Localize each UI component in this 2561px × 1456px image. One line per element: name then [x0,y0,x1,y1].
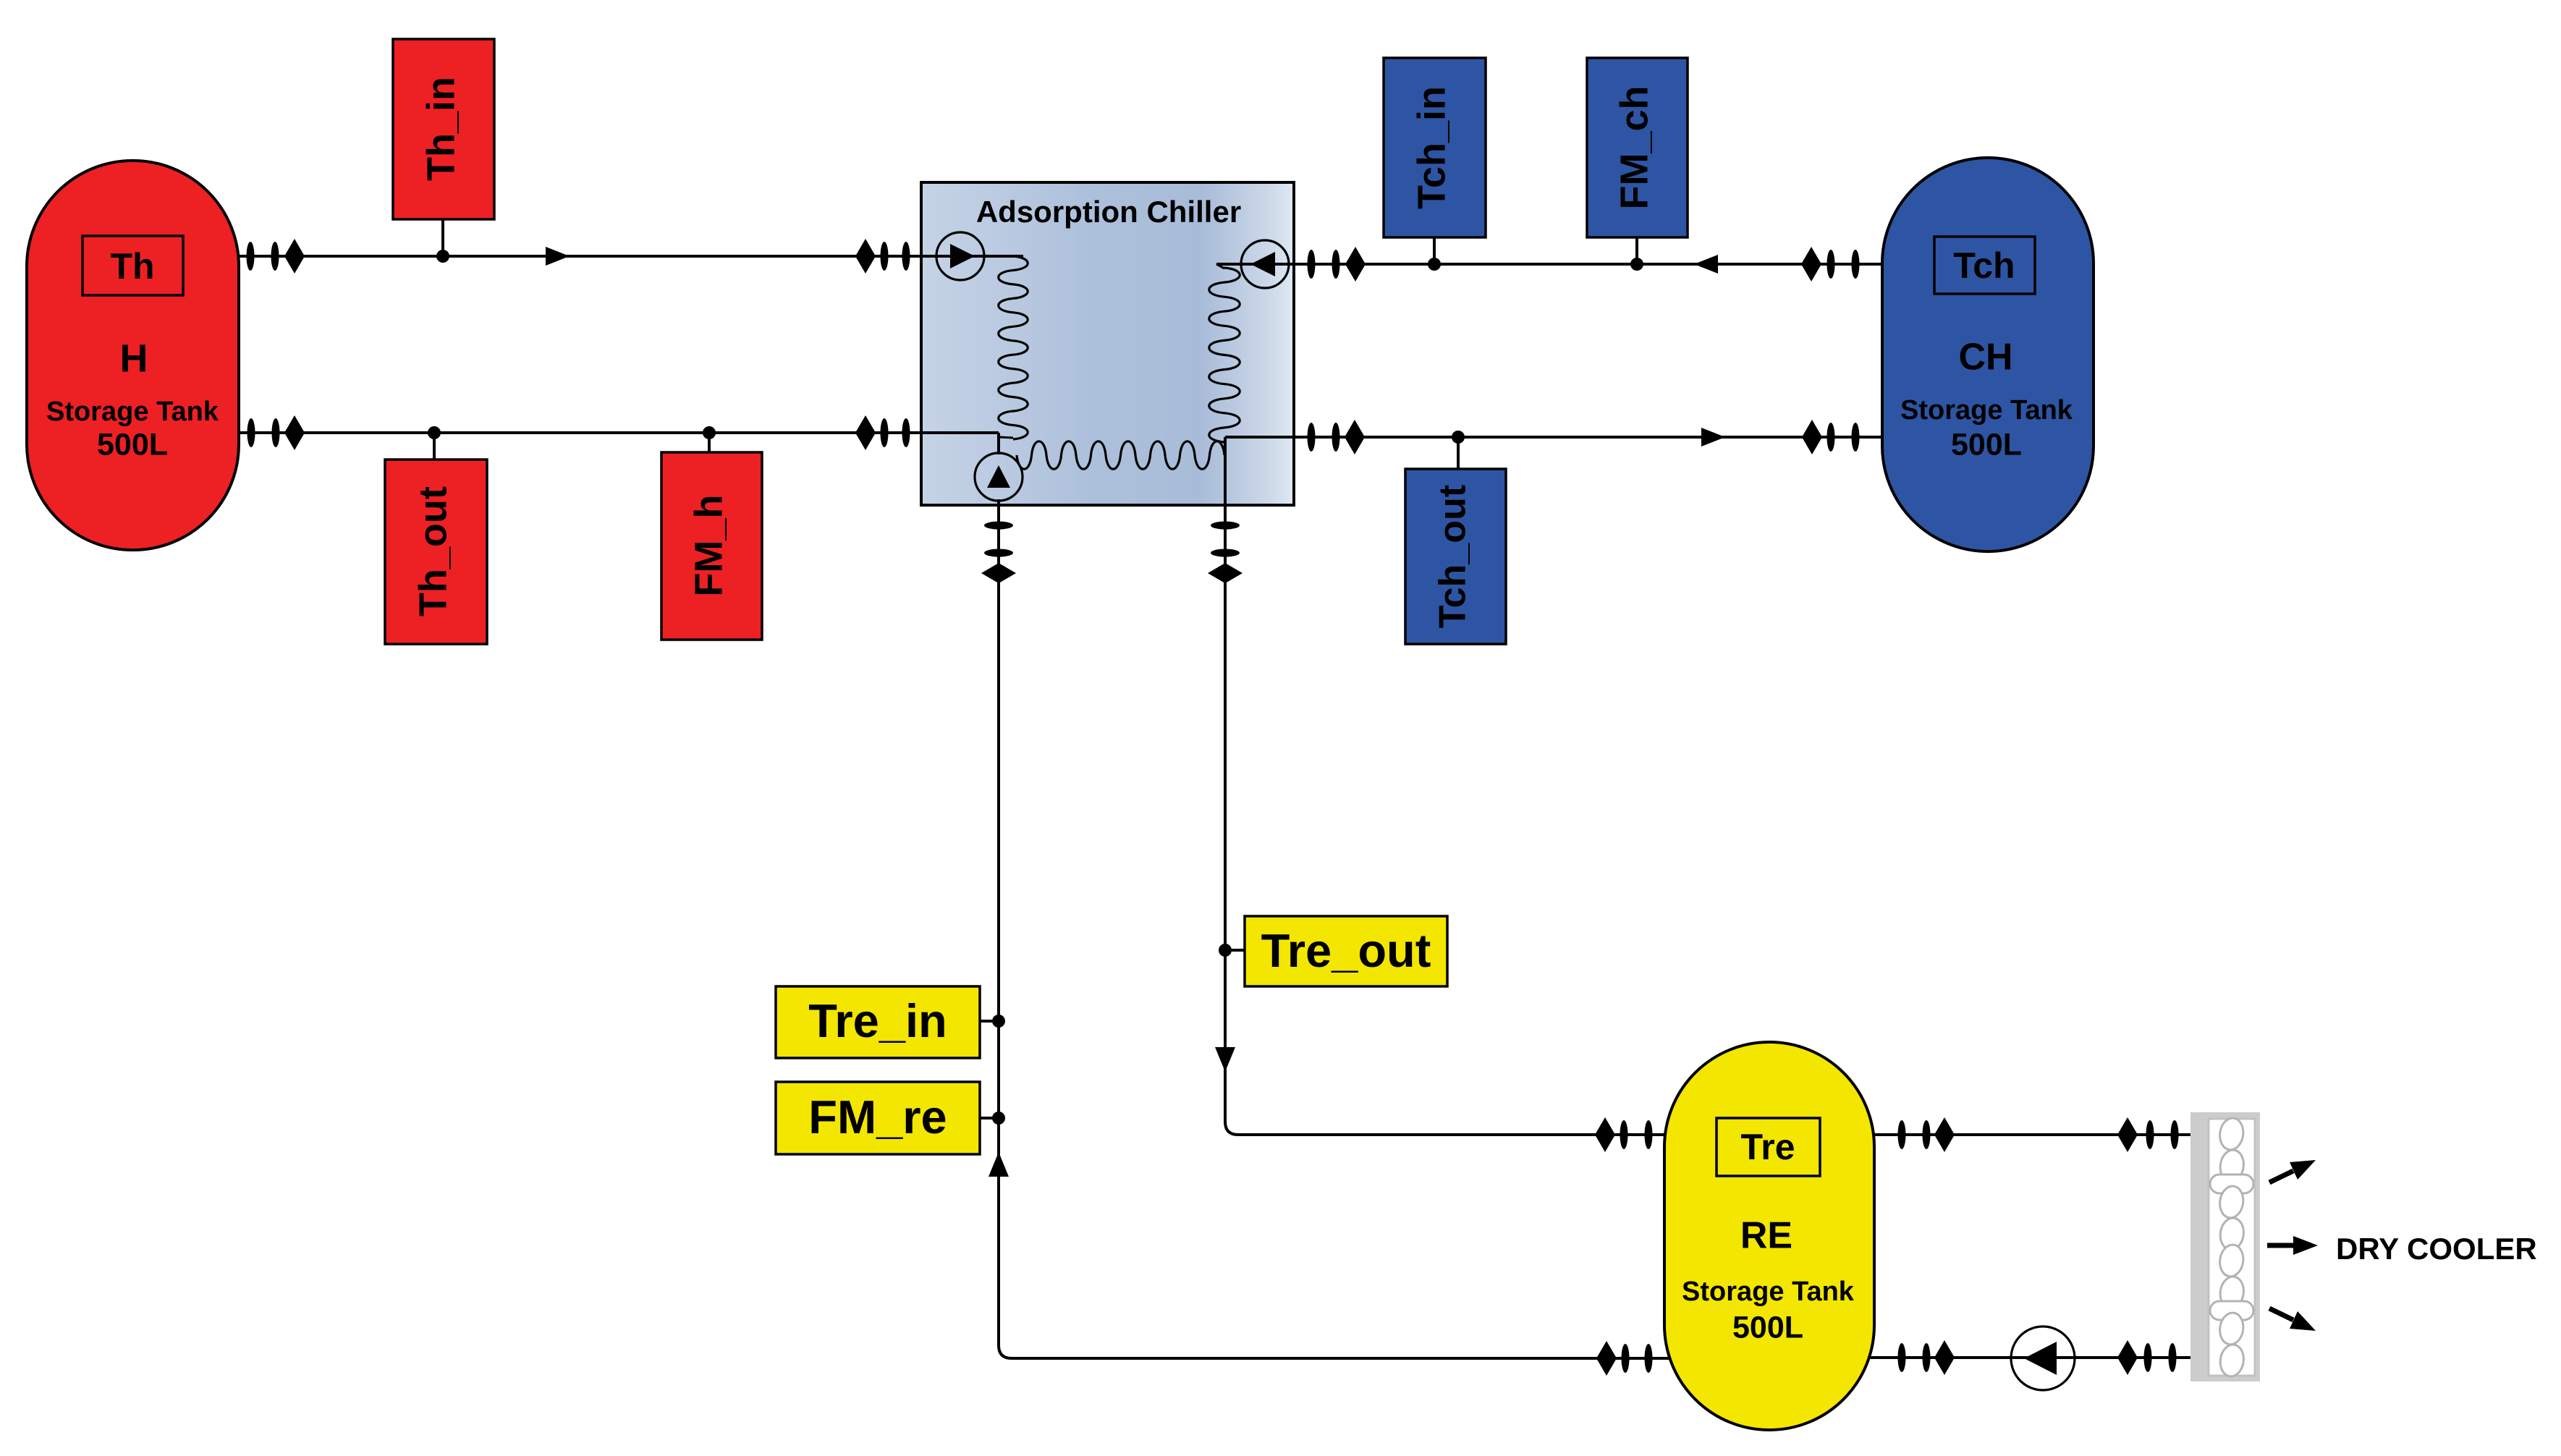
svg-text:FM_h: FM_h [687,495,730,597]
valve diamond [1802,420,1822,454]
valve tick [1852,250,1860,279]
node Tch_in junction [1428,258,1441,271]
flow arrow up [989,1152,1009,1177]
valve diamond [981,563,1016,583]
valve diamond [855,239,876,274]
valve diamond [1801,247,1821,282]
svg-text:500L: 500L [97,427,168,462]
wire corner down to recool pump [997,433,1000,454]
flow arrow right [1701,428,1725,446]
label Adsorption Chiller [976,195,1241,229]
dry cooler fan hub capsule [2210,1301,2253,1320]
valve diamond [2117,1340,2138,1375]
sensor connector FM_h [708,433,711,456]
sensor connector FM_ch [1635,237,1638,264]
node FM_ch junction [1630,258,1643,271]
valve diamond [1934,1117,1955,1152]
valve tick [1645,1120,1653,1149]
valve tick [2169,1343,2177,1372]
valve diamond [284,415,305,450]
air flow arrow up-right [2269,1160,2316,1182]
wire RE to dry cooler top [1853,1133,2193,1136]
heat exchanger coil evaporator [999,437,1224,469]
valve diamond [1345,420,1365,454]
svg-text:Th: Th [110,246,154,287]
valve tick [1308,423,1316,452]
dry cooler fan 1 [2218,1117,2245,1183]
svg-text:Tch_in: Tch_in [1410,86,1453,209]
valve tick [902,418,910,447]
sensor Tre_out [1245,916,1447,986]
sensor connector Tre_out [1225,949,1245,952]
sensor connector Th_in [441,219,444,256]
svg-text:Tre_in: Tre_in [808,994,947,1047]
pump P4 dry cooler circuit [2011,1326,2075,1390]
svg-text:Storage Tank: Storage Tank [1682,1277,1855,1307]
wire chilled return chiller to CH [1225,436,1903,439]
pump P2 chilled circuit [1241,240,1289,288]
svg-text:Th_in: Th_in [419,77,462,181]
valve tick [1852,423,1860,452]
flow arrow left [1694,255,1718,274]
svg-text:Tre: Tre [1740,1127,1795,1167]
valve tick [1645,1344,1653,1373]
valve tick [1923,1120,1931,1149]
svg-text:Th_out: Th_out [411,486,454,617]
valve tick [271,242,279,271]
sensor FM_ch [1587,58,1688,237]
valve tick [1211,522,1240,530]
node Tre_in junction [992,1015,1005,1028]
tank RE recooling storage [1664,1042,1874,1430]
dry cooler fan 4 [2218,1311,2245,1378]
valve tick [1827,423,1835,452]
valve diamond [1934,1340,1955,1375]
valve tick [984,522,1013,530]
sensor FM_h [661,452,762,640]
wire hot supply H to chiller [217,255,1023,258]
wire recool down from chiller [999,499,1012,1358]
valve tick [902,242,910,271]
valve diamond [855,415,876,450]
heat exchanger coil chilled side [1209,264,1240,442]
sensor connector Tch_in [1433,237,1436,264]
sensor connector FM_re [980,1117,999,1119]
sensor connector Tch_out [1457,437,1460,469]
valve tick [1308,250,1316,279]
node FM_h junction [703,426,716,439]
sensor Tch_out [1405,469,1506,644]
valve tick [1332,423,1340,452]
valve tick [247,242,255,271]
svg-text:Adsorption Chiller: Adsorption Chiller [976,195,1241,229]
svg-text:Tre_out: Tre_out [1261,924,1431,977]
pump P1 hot circuit [936,232,984,280]
sensor connector Tre_in [980,1020,999,1023]
valve tick [247,418,255,447]
valve tick [881,418,889,447]
label DRY COOLER [2336,1232,2537,1266]
svg-text:500L: 500L [1951,427,2022,462]
valve tick [1898,1343,1906,1372]
valve tick [1827,250,1835,279]
node Th_out junction [428,426,441,439]
dry cooler frame [2190,1112,2260,1381]
air flow arrow right [2267,1236,2318,1255]
valve tick [2171,1120,2179,1149]
valve tick [881,242,889,271]
air flow arrow down-right [2269,1308,2316,1331]
valve diamond [1595,1117,1615,1152]
valve diamond [284,239,305,274]
valve tick [1898,1120,1906,1149]
valve tick [2146,1120,2154,1149]
node FM_re junction [992,1112,1005,1125]
svg-text:RE: RE [1740,1215,1792,1257]
svg-text:H: H [120,337,148,380]
wire recool down right from chiller [1225,437,1238,1135]
valve tick [272,418,280,447]
flow arrow down [1215,1047,1235,1072]
tank H hot storage [27,161,239,550]
flow arrow right [546,247,570,266]
svg-text:FM_re: FM_re [808,1091,947,1143]
node Tch_out junction [1452,431,1465,444]
valve diamond [1345,247,1366,282]
sensor Th_in [393,39,494,219]
valve diamond [2117,1117,2138,1152]
node Tre_out junction [1219,944,1232,957]
wire hot return chiller to H [217,431,999,434]
valve tick [2144,1343,2152,1372]
valve tick [1620,1120,1628,1149]
svg-text:Storage Tank: Storage Tank [46,397,219,427]
valve tick [1332,250,1340,279]
svg-text:500L: 500L [1732,1310,1803,1345]
dry cooler fan 3 [2218,1243,2245,1310]
valve tick [1622,1344,1630,1373]
sensor Tch_in [1384,58,1486,237]
adsorption chiller unit box [921,182,1294,505]
tank CH chilled storage [1882,158,2094,551]
wire recool bottom return to RE [1012,1357,1708,1360]
wire to RE tank top [1238,1133,1708,1136]
svg-text:Tch_out: Tch_out [1432,485,1474,628]
svg-text:DRY COOLER: DRY COOLER [2336,1232,2537,1266]
svg-text:CH: CH [1958,337,2012,378]
wire chilled supply CH to chiller [1216,263,1903,266]
sensor Th_out [385,460,487,644]
wire dry cooler to RE bottom [1853,1356,2193,1359]
valve diamond [1208,563,1243,583]
valve tick [1923,1343,1931,1372]
svg-text:Storage Tank: Storage Tank [1900,395,2073,426]
dry cooler fan hub capsule [2210,1174,2253,1193]
node Th_in junction [436,250,449,263]
svg-text:Tch: Tch [1953,245,2015,286]
sensor FM_re [776,1082,980,1154]
svg-text:FM_ch: FM_ch [1612,85,1656,209]
valve tick [1211,549,1240,557]
sensor Tre_in [776,986,980,1058]
valve diamond [1596,1341,1617,1376]
pump P3 recooling circuit [975,453,1023,501]
heat exchanger coil hot side [999,256,1028,439]
valve tick [984,549,1013,557]
sensor connector Th_out [433,433,436,463]
dry cooler fan 2 [2218,1185,2245,1251]
